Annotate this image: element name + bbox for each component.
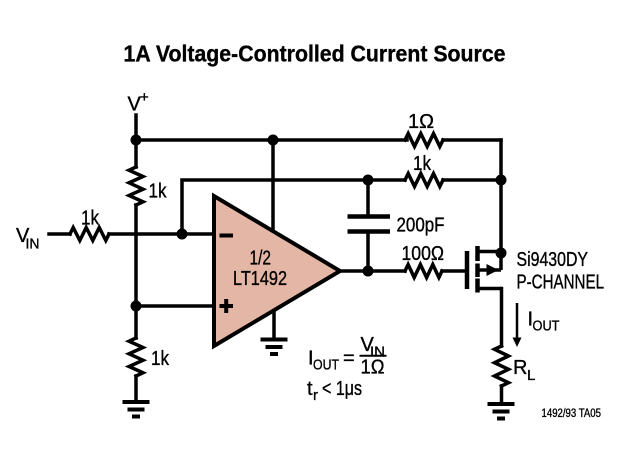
body-source tie [499,252,503,271]
op-amp plus symbol [220,299,234,313]
svg-text:OUT: OUT [533,318,560,335]
wire cap branch lower [366,232,370,272]
node dot minus input [177,229,188,240]
svg-text:R: R [513,357,527,379]
op-amp minus symbol [220,234,234,238]
svg-text:< 1μs: < 1μs [322,378,362,400]
ground left [123,402,150,417]
wire op-amp ground stem [272,312,276,338]
node dot right rail [496,175,507,186]
svg-text:1/2: 1/2 [250,248,272,270]
svg-text:1k: 1k [149,181,168,203]
drain line [478,287,502,291]
wire op-amp V+ pin [271,140,275,232]
resistor R upper 1k vertical [129,167,143,205]
svg-text:1k: 1k [413,153,432,175]
svg-text:L: L [527,367,535,384]
wire plus input [136,304,214,308]
transistor body arrow [487,264,499,276]
svg-text:Si9430DY: Si9430DY [517,249,589,271]
wire top rail left [136,138,407,142]
wire drain vertical [500,289,504,347]
svg-text:P-CHANNEL: P-CHANNEL [517,272,605,294]
ground right [488,404,515,419]
gate bar [465,251,470,289]
svg-text:1A Voltage-Controlled Current: 1A Voltage-Controlled Current Source [124,41,506,67]
svg-text:200pF: 200pF [397,215,445,237]
wire minus input [109,232,214,236]
svg-text:1Ω: 1Ω [408,111,434,133]
wire VIN lead [49,232,70,236]
wire cap branch upper [366,180,370,217]
wire to left ground [134,376,138,400]
transistor Q1 Si9430DY [467,246,501,293]
svg-text:OUT: OUT [313,357,339,374]
node dot cap top [363,175,374,186]
resistor 1ohm [405,134,443,147]
svg-text:1Ω: 1Ω [361,357,385,379]
wire op-amp output [340,269,405,273]
node dot plus input [131,301,142,312]
svg-text:+: + [140,89,149,106]
capacitor C1 200pF plates [348,217,391,232]
channel bar segments [475,246,480,261]
svg-text:1492/93 TA05: 1492/93 TA05 [542,408,602,420]
svg-text:1k: 1k [151,348,170,370]
svg-text:100Ω: 100Ω [402,243,445,265]
node dot top-left [131,135,142,146]
op-amp U1 triangle [214,196,340,346]
wire V+ stem [134,115,138,167]
wire feedback corner [182,180,405,234]
body line [478,268,502,272]
source line [478,250,502,254]
wire RL to ground [500,386,504,402]
wire gate lead [442,269,464,273]
svg-text:IN: IN [26,236,40,253]
svg-text:r: r [313,387,318,404]
wire left vertical mid [134,205,138,338]
resistor 1k feedback [405,174,443,187]
node dot output [363,266,374,277]
svg-text:LT1492: LT1492 [233,268,287,290]
IOUT arrow [516,303,519,339]
resistor RL [495,346,509,386]
ground op-amp [261,340,288,355]
svg-text:1k: 1k [81,208,100,230]
svg-text:=: = [343,348,355,370]
resistor 1k input [70,228,109,241]
wire feedback rail right [443,178,501,182]
node dot source [496,248,507,259]
wire top rail right [443,138,501,142]
resistor lower 1k vertical [129,338,143,376]
wire right vertical [499,140,503,253]
resistor 100ohm [405,265,442,278]
node dot op-amp supply [268,135,279,146]
